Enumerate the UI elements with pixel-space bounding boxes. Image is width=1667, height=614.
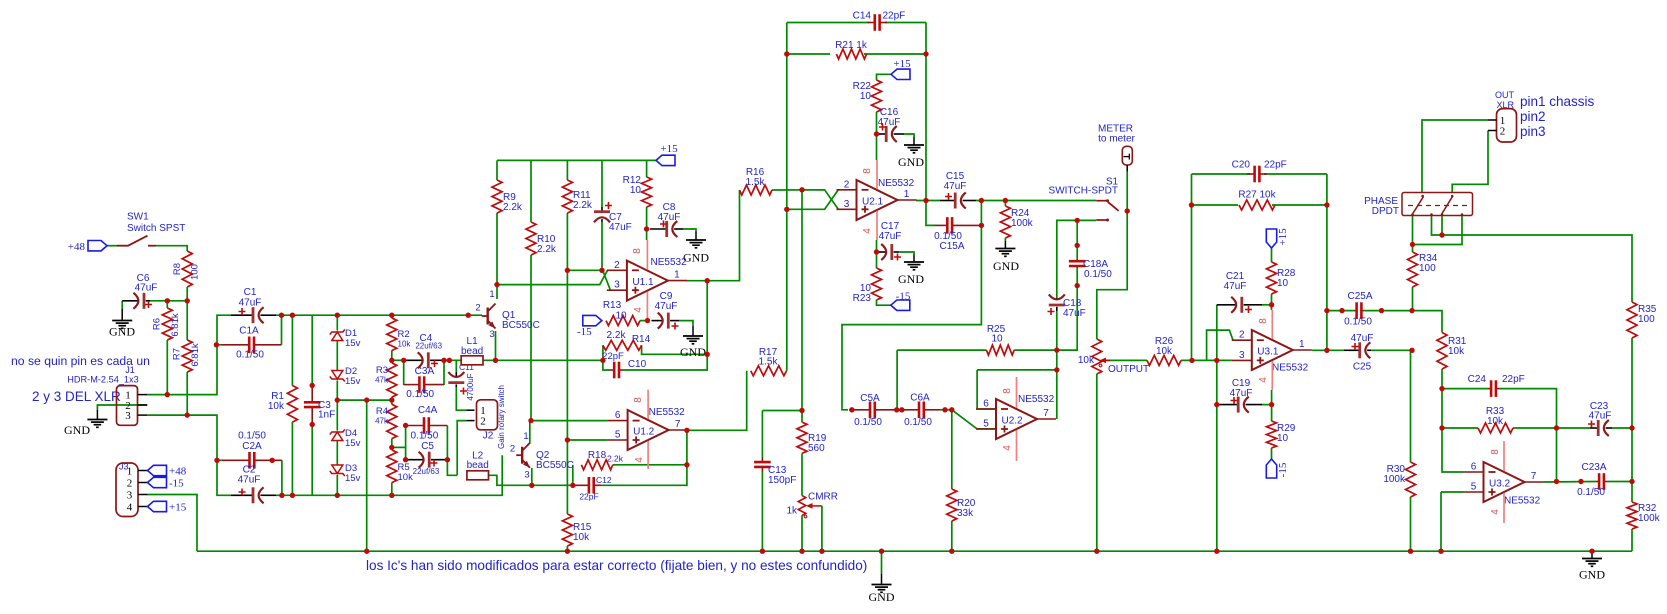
wire R28 top to +15 <box>1271 248 1273 262</box>
wire C18A top <box>1076 220 1078 259</box>
wire C24 line right <box>1499 389 1557 482</box>
resistor R16 1.5k <box>740 167 773 195</box>
svg-text:GND: GND <box>683 251 709 265</box>
wire C11 top <box>455 360 457 372</box>
op-amp U1.1 <box>607 240 687 321</box>
resistor R29 10 <box>1267 421 1296 448</box>
svg-text:+48: +48 <box>169 466 187 478</box>
svg-text:8: 8 <box>633 397 644 403</box>
wire C5A-C6A mid <box>893 409 905 411</box>
capacitor C6A 0.1/50 <box>904 393 940 429</box>
svg-text:10k: 10k <box>268 401 285 412</box>
svg-text:SWITCH-SPDT: SWITCH-SPDT <box>1049 186 1118 197</box>
wire R25 left vertical <box>896 350 898 410</box>
capacitor C6 47uF <box>122 273 157 309</box>
capacitor C19 47uF <box>1217 378 1262 413</box>
wire C23 right <box>1612 427 1632 429</box>
svg-text:R7: R7 <box>172 348 183 360</box>
svg-text:U1.2: U1.2 <box>633 427 655 438</box>
capacitor C21 47uF <box>1217 271 1262 313</box>
svg-text:C25: C25 <box>1353 362 1372 373</box>
wire R32 bottom <box>1631 529 1633 551</box>
svg-text:-15: -15 <box>896 291 911 303</box>
annotation pin3 <box>1520 124 1546 139</box>
capacitor C5 22uf/63 <box>406 441 448 476</box>
svg-text:C5A: C5A <box>860 393 880 404</box>
op-amp U2.1 <box>837 160 917 240</box>
wire CMRR wiper down <box>821 506 823 551</box>
svg-text:2 y 3 DEL XLR: 2 y 3 DEL XLR <box>32 389 121 404</box>
svg-text:NE5532: NE5532 <box>1504 496 1541 507</box>
resistor R23 10 <box>853 268 882 304</box>
wire feedback to U1.1 output <box>706 281 708 355</box>
wire +15 rail <box>497 159 656 161</box>
wire contact4 jog <box>1413 216 1463 245</box>
svg-text:6: 6 <box>1471 462 1477 473</box>
zener diode D1 15v <box>330 328 361 349</box>
wire R18 left down <box>572 465 574 486</box>
resistor R6 6.81k <box>152 308 181 340</box>
wire wiper to R26 <box>1103 359 1147 361</box>
op-amp U3.1 <box>1232 310 1312 390</box>
svg-text:47uF: 47uF <box>1224 281 1247 292</box>
svg-text:C6A: C6A <box>910 393 930 404</box>
svg-text:bead: bead <box>467 460 489 471</box>
resistor R22 10 <box>853 80 882 112</box>
wire R30 bottom <box>1410 497 1412 551</box>
wire R24 bottom to GND <box>1004 238 1006 241</box>
wire CMRR bottom to rail <box>801 515 803 551</box>
wire C4 line to L1 <box>444 359 461 361</box>
power flag -15 J3 pin2 <box>148 477 185 489</box>
capacitor C23A 0.1/50 <box>1577 462 1607 498</box>
wire C3A right vertical <box>443 360 445 385</box>
resistor R5 10k <box>387 450 413 483</box>
svg-text:8: 8 <box>1258 318 1269 324</box>
svg-text:10k: 10k <box>1078 355 1095 366</box>
svg-text:1.5k: 1.5k <box>746 177 766 188</box>
svg-text:4: 4 <box>127 502 133 514</box>
wire Q1 collector node line <box>497 270 608 284</box>
svg-text:8: 8 <box>632 248 643 254</box>
wire C4A-C5 left vertical <box>405 426 407 460</box>
capacitor C17 47uF <box>877 221 902 261</box>
svg-text:10k: 10k <box>398 472 414 483</box>
svg-text:Gain rotary switch: Gain rotary switch <box>497 385 506 449</box>
wire J3 pin3 to rail <box>148 495 198 552</box>
svg-text:10k: 10k <box>1448 346 1465 357</box>
wire R35 bottom vertical <box>1631 338 1633 502</box>
potentiometer OUTPUT 10k <box>1078 339 1149 375</box>
capacitor C14 22pF <box>853 11 906 31</box>
svg-text:7: 7 <box>675 419 681 430</box>
wire R25 right to output vertical <box>1014 286 1077 351</box>
capacitor C9 47uF <box>652 291 680 330</box>
ground C9 <box>680 326 706 359</box>
wire contact2 jog <box>1432 216 1443 236</box>
wire D1-D2 <box>336 341 338 371</box>
wire U3.1 output <box>1312 349 1344 351</box>
wire R12 bottom to pin8 <box>646 207 648 240</box>
annotation DEL XLR <box>32 389 121 404</box>
svg-text:C4A: C4A <box>418 405 438 416</box>
wire R35 top long <box>1442 235 1632 302</box>
svg-text:47uF: 47uF <box>1351 333 1374 344</box>
svg-text:NE5532: NE5532 <box>1272 363 1309 374</box>
wire C13 branch <box>762 410 802 412</box>
wire U2.2 output vertical <box>1056 311 1058 419</box>
svg-text:3: 3 <box>1239 350 1245 361</box>
zener diode D4 15v <box>330 428 361 449</box>
power flag +48 input <box>68 241 107 254</box>
capacitor C5A 0.1/50 <box>849 393 894 428</box>
wire Q2 collector up <box>529 421 531 444</box>
resistor R3 47k <box>375 363 397 397</box>
capacitor C2A 0.1/50 <box>222 431 282 469</box>
svg-text:7: 7 <box>1531 471 1537 482</box>
capacitor C8 47uF <box>650 202 683 237</box>
svg-text:XLR: XLR <box>1496 100 1514 110</box>
svg-text:C20: C20 <box>1232 160 1251 171</box>
svg-text:1: 1 <box>904 189 910 200</box>
wire C1A right up <box>281 315 283 345</box>
svg-text:3: 3 <box>614 280 620 291</box>
svg-text:100: 100 <box>190 264 201 280</box>
wire R33 left <box>1442 427 1478 429</box>
wire U3.2 output <box>1544 481 1597 484</box>
wire C4-C3A left vertical <box>403 360 405 385</box>
ground J1 pin2 <box>64 410 107 437</box>
wire C19 right <box>1262 404 1272 406</box>
resistor R18 2.2k <box>581 450 623 470</box>
ground bottom right <box>1579 554 1605 582</box>
wire U3.1 fb right vertical <box>1326 174 1328 350</box>
wire C11 bottom to J2 pin1 <box>456 387 466 410</box>
svg-text:C3A: C3A <box>415 366 435 377</box>
capacitor C11 4700uF <box>448 362 475 401</box>
resistor R4 47k <box>375 404 397 438</box>
ground C17 <box>898 255 924 287</box>
wire R29 bottom to -15 <box>1271 448 1273 459</box>
svg-text:J1: J1 <box>125 365 135 375</box>
wire R7 top lead <box>186 301 188 340</box>
wire D3 to bottom node <box>336 475 338 495</box>
wire C6 to GND <box>121 301 123 309</box>
wire D4-D3 <box>336 441 338 466</box>
wire C4A-C5 right vertical <box>447 426 457 476</box>
wire C7 bottom <box>601 222 603 270</box>
capacitor C4 22uf/63 <box>404 333 444 368</box>
wire R2 top lead <box>391 315 393 318</box>
wire R14 parallel top <box>602 345 604 360</box>
wire C10 parallel bottom <box>603 360 609 370</box>
wire R21 line right <box>864 53 926 55</box>
wire U3.2 pin5 down <box>1440 492 1442 551</box>
wire U3.1 pin2 jog <box>1207 330 1233 360</box>
svg-text:R21 1k: R21 1k <box>835 40 868 51</box>
svg-text:47k: 47k <box>375 417 389 426</box>
wire mid node line <box>337 399 392 401</box>
svg-text:NE5532: NE5532 <box>878 178 915 189</box>
ground C8 <box>683 232 709 265</box>
wire R10 bottom to pin6 line <box>530 255 532 421</box>
svg-text:0.1/50: 0.1/50 <box>410 431 438 442</box>
wire C21 left vertical <box>1216 305 1218 551</box>
svg-text:0.1/50: 0.1/50 <box>904 417 932 428</box>
wire C23A right <box>1607 481 1632 483</box>
svg-text:2.2k: 2.2k <box>503 202 523 213</box>
capacitor C2 47uF <box>231 465 276 504</box>
svg-text:C23A: C23A <box>1581 462 1606 473</box>
svg-text:C14: C14 <box>853 11 872 22</box>
wire top node line <box>276 314 482 316</box>
svg-text:33k: 33k <box>957 508 974 519</box>
svg-text:3: 3 <box>524 470 529 481</box>
wire C12 right <box>601 430 687 485</box>
svg-text:2: 2 <box>510 444 515 455</box>
resistor R35 100 <box>1627 302 1657 338</box>
svg-text:100: 100 <box>1419 263 1436 274</box>
svg-text:22uf/63: 22uf/63 <box>413 467 440 476</box>
svg-text:OUTPUT: OUTPUT <box>1108 364 1149 375</box>
svg-text:GND: GND <box>680 345 706 359</box>
wire R25 line left <box>897 349 986 351</box>
wire C10 right <box>624 354 707 370</box>
svg-text:2.2k: 2.2k <box>607 454 624 464</box>
wire J1 pin1 line up to C1 <box>147 315 231 394</box>
svg-text:GND: GND <box>898 272 924 286</box>
wire R8 bottom to C6 node <box>186 287 188 301</box>
svg-text:1: 1 <box>674 270 680 281</box>
svg-text:0.1/50: 0.1/50 <box>1084 269 1112 280</box>
svg-text:3: 3 <box>844 199 850 210</box>
svg-text:pin3: pin3 <box>1520 124 1546 139</box>
svg-text:22pF: 22pF <box>579 492 598 502</box>
svg-text:2.2k: 2.2k <box>573 200 593 211</box>
svg-text:2: 2 <box>475 303 480 314</box>
svg-text:C1: C1 <box>244 287 257 298</box>
svg-text:0.1/50: 0.1/50 <box>854 417 882 428</box>
svg-text:4: 4 <box>862 228 873 234</box>
wire U3.1 fb left vertical <box>1191 174 1193 360</box>
power flag +15 +15 R22 <box>891 58 911 80</box>
svg-text:CMRR: CMRR <box>808 492 838 503</box>
svg-text:GND: GND <box>993 259 1019 273</box>
capacitor C7 47uF <box>594 202 632 233</box>
wire bottom node line <box>276 455 502 495</box>
capacitor C3 1nF <box>304 385 335 424</box>
wire Q2 emitter down <box>531 468 533 485</box>
wire contact3 down <box>1441 216 1443 236</box>
connector J2 gain rotary switch <box>466 385 506 449</box>
svg-text:NE5532: NE5532 <box>649 407 686 418</box>
svg-text:2: 2 <box>1239 330 1245 341</box>
svg-text:R14: R14 <box>632 334 651 345</box>
wire R1 top <box>291 315 293 385</box>
svg-text:47uF: 47uF <box>135 283 158 294</box>
resistor R21 1k <box>835 40 868 59</box>
wire C7 top <box>601 160 603 207</box>
svg-text:R18: R18 <box>588 450 607 461</box>
wire C9 right to GND <box>679 321 693 326</box>
svg-text:2: 2 <box>1500 126 1506 138</box>
svg-text:U2.1: U2.1 <box>862 197 884 208</box>
svg-text:C25A: C25A <box>1347 291 1372 302</box>
svg-text:6.81k: 6.81k <box>170 313 181 336</box>
wire R22 top to +15 <box>877 74 892 80</box>
svg-text:5: 5 <box>615 430 621 441</box>
wire C13 top <box>761 411 763 458</box>
svg-text:10: 10 <box>615 311 627 322</box>
wire R20 top <box>951 410 953 489</box>
wire R26 right <box>1181 359 1232 361</box>
svg-text:15v: 15v <box>345 473 361 484</box>
wire J1 pin3 line down to C2 <box>147 415 231 495</box>
wire R14 right <box>642 345 708 354</box>
resistor R24 100k <box>1000 206 1033 238</box>
svg-text:8: 8 <box>1002 388 1013 394</box>
connector METER <box>1098 124 1136 172</box>
svg-text:R3: R3 <box>376 365 388 376</box>
wire SW1 to R8 <box>156 246 188 251</box>
svg-text:10k: 10k <box>1487 416 1504 427</box>
wire R28 bottom to pin8 <box>1271 294 1273 310</box>
bottom annotation <box>366 558 867 573</box>
wire L2 right to emitter line <box>489 475 573 485</box>
svg-text:R13: R13 <box>603 300 622 311</box>
resistor R2 10k <box>387 318 412 351</box>
wire C2A left tap <box>217 459 222 461</box>
wire U1.1 output <box>686 190 740 281</box>
svg-text:U3.1: U3.1 <box>1257 347 1279 358</box>
svg-text:4700uF: 4700uF <box>466 373 475 400</box>
svg-text:C15A: C15A <box>939 241 964 252</box>
resistor R7 6.81k <box>172 340 201 372</box>
svg-text:+15: +15 <box>660 143 678 155</box>
svg-text:4: 4 <box>1490 509 1501 515</box>
wire output pot bottom <box>1096 374 1098 551</box>
resistor R14 2.2k <box>603 330 651 350</box>
op-amp U1.2 <box>608 390 688 469</box>
svg-text:C5: C5 <box>421 441 434 452</box>
wire meter line <box>1126 172 1128 210</box>
svg-text:10k: 10k <box>398 340 412 349</box>
wire U2.2 pin5 diagonal <box>952 410 996 429</box>
wire C1A left tap <box>217 344 222 346</box>
svg-text:15v: 15v <box>345 376 361 387</box>
wire C2A right down <box>281 460 283 495</box>
svg-text:5: 5 <box>1471 482 1477 493</box>
svg-text:0.1/50: 0.1/50 <box>238 431 266 442</box>
wire mid node to rail <box>366 400 368 551</box>
resistor R9 2.2k <box>492 180 523 213</box>
switch PHASE DPDT <box>1364 193 1472 218</box>
resistor R33 10k <box>1478 406 1513 433</box>
wire R30 vertical top <box>1410 350 1412 462</box>
switch S1 SWITCH-SPDT <box>1049 177 1119 222</box>
annotation note <box>11 354 150 368</box>
wire R19 vertical top <box>801 190 803 422</box>
ground bottom center <box>869 574 895 604</box>
wire diode chain <box>336 315 338 330</box>
wire C14-R21 right vertical <box>926 23 935 226</box>
power flag -15 -15 R29 <box>1266 459 1289 478</box>
svg-text:100k: 100k <box>1011 218 1034 229</box>
svg-text:47uF: 47uF <box>944 181 967 192</box>
transistor Q1 BC550C <box>475 289 539 340</box>
svg-text:DPDT: DPDT <box>1372 206 1399 217</box>
svg-text:10: 10 <box>630 185 642 196</box>
svg-text:5: 5 <box>983 419 989 430</box>
svg-text:47uF: 47uF <box>658 212 681 223</box>
svg-text:100k: 100k <box>1638 513 1661 524</box>
wire C13 bottom to rail <box>761 472 763 551</box>
svg-text:2.2k: 2.2k <box>607 330 627 341</box>
svg-text:C12: C12 <box>596 475 612 485</box>
svg-text:10k: 10k <box>573 532 590 543</box>
capacitor C25 47uF <box>1344 333 1373 373</box>
svg-text:1: 1 <box>489 289 494 300</box>
wire C15A right vertical <box>842 201 981 410</box>
wire C14 line right <box>885 22 926 24</box>
svg-text:R6: R6 <box>152 318 163 330</box>
svg-text:4: 4 <box>1002 445 1013 451</box>
wire C24 line left <box>1442 388 1488 390</box>
wire R23 bottom to -15 <box>877 300 891 305</box>
svg-text:pin2: pin2 <box>1520 109 1546 124</box>
wire XLR pin1 line <box>1422 120 1488 193</box>
svg-text:6: 6 <box>983 399 989 410</box>
svg-text:NE5532: NE5532 <box>651 257 688 268</box>
svg-text:2: 2 <box>127 478 133 490</box>
wire pin4 to R29 <box>1271 390 1273 421</box>
svg-text:NE5532: NE5532 <box>1018 394 1055 405</box>
svg-text:GND: GND <box>898 155 924 169</box>
wire L1 to emitter line <box>483 359 603 361</box>
resistor R25 10 <box>986 324 1014 355</box>
wire R17 right up <box>786 370 788 372</box>
wire C20 line right <box>1264 173 1327 175</box>
svg-text:47uF: 47uF <box>655 301 678 312</box>
wire XLR pin2 line <box>1452 131 1488 193</box>
svg-text:47uF: 47uF <box>878 117 901 128</box>
svg-text:U3.2: U3.2 <box>1489 479 1511 490</box>
svg-text:pin1 chassis: pin1 chassis <box>1520 94 1595 109</box>
resistor R34 100 <box>1408 252 1438 287</box>
switch SW1 Switch SPST <box>117 212 185 246</box>
wire J2 pin2 to L2 <box>457 421 466 476</box>
capacitor C15A 0.1/50 <box>934 217 981 252</box>
svg-text:2: 2 <box>844 179 850 190</box>
resistor R19 560 <box>797 422 827 454</box>
power flag +48 J3 pin1 <box>148 465 187 477</box>
wire U1.2 output <box>687 371 747 431</box>
capacitor C24 22pF <box>1468 374 1525 397</box>
svg-text:OUT: OUT <box>1495 90 1515 100</box>
wire J1 pin2 to GND <box>97 405 147 410</box>
svg-text:8: 8 <box>862 168 873 174</box>
wire R13 to pin4 <box>640 320 648 322</box>
resistor R28 10 <box>1267 262 1296 294</box>
wire GND stem bottom <box>881 551 883 574</box>
wire C6A right <box>940 409 952 411</box>
wire C21 right <box>1262 304 1272 306</box>
svg-text:to meter: to meter <box>1098 134 1135 145</box>
svg-text:1: 1 <box>1299 339 1305 350</box>
transistor Q2 BC550C <box>510 431 574 481</box>
svg-text:10: 10 <box>1277 278 1289 289</box>
capacitor C12 22pF <box>573 475 612 502</box>
